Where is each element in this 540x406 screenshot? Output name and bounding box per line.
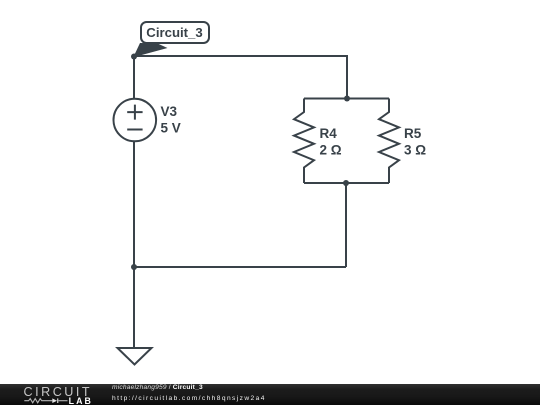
svg-text:5 V: 5 V (161, 121, 181, 136)
svg-text:R5: R5 (404, 126, 422, 141)
svg-text:R4: R4 (320, 126, 338, 141)
svg-text:V3: V3 (161, 104, 178, 119)
svg-text:Circuit_3: Circuit_3 (146, 25, 202, 40)
svg-text:2 Ω: 2 Ω (320, 143, 342, 158)
svg-text:3 Ω: 3 Ω (404, 143, 426, 158)
